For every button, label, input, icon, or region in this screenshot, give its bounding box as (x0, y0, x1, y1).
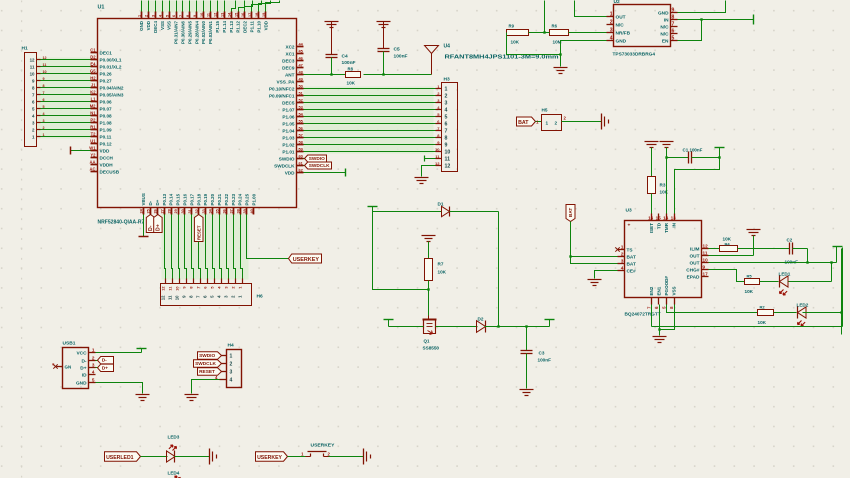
svg-text:RESET: RESET (199, 369, 215, 375)
wire ground to R7 (428, 242, 430, 259)
svg-text:10: 10 (200, 13, 204, 17)
net flag D+ at USB1 (96, 364, 114, 371)
svg-text:P0.03/AIN1: P0.03/AIN1 (208, 20, 213, 43)
svg-text:2: 2 (445, 94, 448, 100)
svg-text:53: 53 (299, 106, 303, 110)
wire LED2 to right rail (803, 312, 842, 314)
svg-text:4: 4 (43, 112, 45, 116)
svg-text:12: 12 (43, 56, 47, 60)
wire C1 to U3 IN (675, 156, 721, 213)
svg-text:P0.23: P0.23 (231, 193, 236, 205)
wire node to C3 (526, 327, 528, 351)
wire USERKEY to ground (329, 456, 364, 458)
ground below CE# (588, 279, 602, 281)
svg-text:H6: H6 (257, 294, 263, 300)
svg-text:9: 9 (672, 8, 675, 14)
svg-text:ILIM: ILIM (690, 246, 700, 252)
power flag at C1 (692, 148, 725, 158)
svg-text:5: 5 (43, 105, 45, 109)
svg-text:2: 2 (145, 15, 149, 17)
svg-text:36: 36 (223, 209, 227, 213)
diode D2 (477, 317, 486, 333)
svg-text:4: 4 (92, 370, 95, 375)
svg-text:EN1: EN1 (657, 286, 662, 295)
svg-text:19: 19 (262, 13, 266, 17)
svg-text:U4: U4 (444, 44, 451, 50)
svg-text:P0.00/XL1: P0.00/XL1 (100, 57, 122, 62)
svg-text:1: 1 (621, 245, 624, 251)
svg-text:SWDIO: SWDIO (309, 156, 325, 162)
svg-text:DECUSB: DECUSB (100, 169, 120, 174)
svg-text:BAT: BAT (568, 208, 573, 217)
svg-text:P1.06: P1.06 (282, 114, 295, 119)
svg-text:P1.12: P1.12 (236, 20, 241, 32)
svg-text:P1.14: P1.14 (222, 20, 227, 32)
transistor Q1 (423, 316, 440, 351)
svg-text:P1.00: P1.00 (252, 193, 257, 205)
svg-text:P1.03: P1.03 (282, 135, 295, 140)
svg-text:P1.05: P1.05 (282, 121, 295, 126)
svg-text:USERKEY: USERKEY (311, 443, 336, 449)
svg-text:47: 47 (299, 64, 303, 68)
wire R3 to U3 ISET (651, 194, 653, 214)
resistor R4 10K (720, 237, 738, 252)
wire H4 pin4 to ground (192, 380, 220, 394)
svg-text:NRF52840-QIAA-R7: NRF52840-QIAA-R7 (98, 220, 145, 226)
svg-text:100nF: 100nF (538, 358, 552, 363)
svg-text:RESET: RESET (196, 225, 201, 240)
svg-text:P0.29/AIN5: P0.29/AIN5 (187, 20, 192, 43)
power flag right of D2 (545, 320, 555, 327)
wire D2 to C3 and power (485, 325, 550, 327)
svg-text:M2: M2 (90, 104, 96, 109)
svg-text:DEC2: DEC2 (243, 20, 248, 32)
svg-text:P1.09: P1.09 (100, 127, 113, 132)
no-connect on U3 TS (615, 247, 619, 251)
svg-text:10: 10 (445, 150, 451, 156)
svg-text:15: 15 (656, 216, 662, 221)
svg-text:17: 17 (248, 13, 252, 17)
svg-text:VCC: VCC (76, 350, 87, 356)
svg-text:VDD: VDD (146, 20, 151, 30)
svg-text:100nF: 100nF (394, 54, 408, 60)
ground at H5 (601, 114, 603, 130)
ground right of LED3 (209, 449, 211, 465)
svg-text:C4: C4 (342, 54, 348, 60)
svg-text:RFANT8MH4JPS1101-3M=9.0mm: RFANT8MH4JPS1101-3M=9.0mm (445, 55, 560, 61)
svg-text:P1.07: P1.07 (282, 107, 295, 112)
mcu U1 nRF52840 (98, 5, 297, 226)
svg-text:R6: R6 (552, 24, 558, 29)
svg-text:VSS: VSS (160, 21, 165, 30)
svg-text:P0.06: P0.06 (100, 99, 113, 104)
svg-text:VDD: VDD (100, 148, 110, 153)
wire U1 to H3 bus (304, 89, 436, 152)
svg-text:6: 6 (672, 29, 675, 35)
svg-text:C5: C5 (394, 47, 400, 53)
net flag SWDCLK at H4 (194, 360, 222, 368)
svg-text:P0.26: P0.26 (100, 71, 113, 76)
capacitor C3 100nF (521, 351, 552, 363)
charger U3 left pins (618, 245, 637, 275)
power flag at Q1 source (384, 320, 424, 327)
svg-text:ANT: ANT (285, 72, 295, 77)
svg-text:D+: D+ (80, 365, 86, 371)
svg-text:R7: R7 (438, 262, 444, 267)
svg-text:VDDH: VDDH (100, 162, 114, 167)
wire D1 loop left (373, 212, 442, 290)
wire R7 to Q1 gate (427, 281, 429, 316)
svg-text:L1: L1 (91, 97, 97, 102)
svg-text:VDD: VDD (263, 20, 268, 30)
svg-text:LED2: LED2 (797, 303, 809, 308)
svg-text:62: 62 (299, 169, 303, 173)
svg-text:R3: R3 (660, 183, 666, 188)
wire ANT net (304, 73, 432, 75)
svg-text:D-: D- (102, 358, 107, 364)
svg-text:H5: H5 (542, 108, 548, 113)
svg-text:P1.10: P1.10 (256, 20, 261, 32)
svg-text:2: 2 (92, 356, 95, 361)
svg-text:BAT: BAT (627, 261, 637, 267)
svg-text:LED4: LED4 (168, 471, 180, 476)
wire H5 pin2 to ground (562, 121, 602, 123)
svg-text:H2: H2 (90, 76, 96, 81)
wire R6 to U2 NR/FB (569, 32, 607, 34)
svg-text:D+: D+ (155, 199, 160, 205)
svg-text:IN: IN (664, 17, 669, 23)
svg-text:D1: D1 (438, 202, 444, 207)
wire H3 pin11 stub (425, 156, 436, 162)
svg-text:DEC3: DEC3 (282, 58, 295, 63)
regulator U2 TPS73033 (613, 0, 671, 58)
svg-text:12: 12 (161, 287, 165, 291)
svg-text:10K: 10K (758, 320, 767, 325)
svg-text:H3: H3 (444, 77, 450, 83)
svg-text:DCCH: DCCH (100, 155, 114, 160)
svg-text:VSS_PA: VSS_PA (277, 79, 296, 84)
wire R5 to LED1 (760, 281, 779, 283)
wire U2 IN net (678, 15, 754, 25)
svg-text:N/C: N/C (616, 22, 625, 28)
svg-text:3: 3 (610, 28, 613, 34)
svg-text:5: 5 (672, 36, 675, 42)
svg-text:11: 11 (167, 295, 172, 300)
svg-text:P0.02/AIN0: P0.02/AIN0 (201, 20, 206, 43)
svg-text:29: 29 (174, 209, 178, 213)
svg-text:5: 5 (445, 115, 448, 121)
ground below USB1 (136, 394, 150, 396)
svg-text:VBUS: VBUS (141, 193, 146, 205)
svg-text:P0.30/AIN6: P0.30/AIN6 (181, 20, 186, 43)
svg-text:R5: R5 (747, 274, 753, 279)
svg-text:SWDCLK: SWDCLK (274, 163, 295, 168)
wire R4 to C2 (738, 248, 790, 250)
net flag BAT above U3 (566, 205, 575, 222)
svg-text:4: 4 (230, 378, 233, 384)
svg-text:U1: U1 (90, 139, 96, 144)
svg-text:+: + (628, 224, 631, 229)
svg-text:13: 13 (221, 13, 225, 17)
svg-text:12: 12 (445, 164, 451, 170)
svg-text:P0.08: P0.08 (100, 113, 113, 118)
svg-text:7: 7 (43, 91, 45, 95)
wire C2 to OUT net (793, 249, 808, 263)
svg-text:1: 1 (445, 87, 448, 93)
net flag D- at USB1 (96, 357, 114, 364)
svg-text:9: 9 (193, 15, 197, 17)
ground above R3 (645, 141, 659, 143)
net flag SWDIO (304, 155, 327, 162)
svg-text:7: 7 (445, 129, 448, 135)
svg-text:P0.24: P0.24 (238, 193, 243, 205)
svg-text:33: 33 (202, 209, 206, 213)
svg-text:3: 3 (152, 15, 156, 17)
net flag RESET on P0.18 (194, 215, 203, 242)
svg-text:P0.09/NFC1: P0.09/NFC1 (269, 93, 295, 98)
svg-text:R4: R4 (725, 242, 731, 247)
svg-text:6: 6 (203, 287, 207, 289)
ground below U3 (653, 336, 667, 338)
svg-text:AC: AC (90, 167, 96, 172)
wire U2 GND pin to ground (559, 41, 606, 67)
svg-text:2: 2 (230, 362, 233, 368)
wire U3 CHG# to R5 (709, 270, 745, 282)
svg-text:10K: 10K (511, 40, 520, 45)
svg-text:2: 2 (621, 252, 624, 258)
svg-text:SWDCLK: SWDCLK (309, 163, 330, 169)
battery connector H5 (536, 108, 566, 131)
net flag BAT at H5 (517, 117, 542, 126)
svg-text:VDD: VDD (285, 170, 295, 175)
ground below H4 (185, 394, 199, 396)
power flag at D1 anode (368, 207, 378, 212)
svg-text:C1: C1 (683, 148, 689, 153)
svg-text:H1: H1 (22, 46, 28, 52)
svg-text:D2: D2 (478, 317, 484, 322)
power flag OUT net (833, 246, 843, 248)
svg-text:P1.11: P1.11 (250, 20, 255, 32)
svg-text:P0.20: P0.20 (210, 193, 215, 205)
svg-text:1: 1 (230, 354, 233, 360)
svg-text:57: 57 (299, 134, 303, 138)
svg-text:USERKEY: USERKEY (257, 455, 282, 461)
svg-text:1: 1 (92, 348, 95, 353)
ground above R7 (422, 235, 436, 237)
wire R2 to LED2 (774, 312, 797, 314)
power flag VBUS at USB1 (96, 349, 147, 353)
ground above C5 (377, 22, 391, 49)
svg-text:P0.16: P0.16 (183, 193, 188, 205)
wire U3 OUT11 to ground (709, 236, 754, 256)
power flag VBUS (139, 215, 149, 237)
svg-text:OUT: OUT (616, 14, 626, 20)
svg-text:J1: J1 (91, 83, 96, 88)
svg-text:TMR: TMR (664, 222, 669, 233)
svg-text:12: 12 (160, 295, 165, 300)
net flag SWDCLK (304, 162, 332, 169)
wire U3 EN2 rail (652, 305, 843, 327)
svg-text:40: 40 (250, 209, 254, 213)
svg-text:1: 1 (43, 133, 45, 137)
svg-text:P1.08: P1.08 (100, 120, 113, 125)
svg-text:3: 3 (92, 363, 95, 368)
svg-text:CE#: CE# (627, 268, 637, 274)
svg-text:Q1: Q1 (424, 339, 430, 344)
led LED2 (797, 303, 809, 327)
capacitor C2 100nF (785, 238, 799, 265)
wire U3 VSS down (660, 305, 675, 330)
net flag USERKEY at SW (256, 452, 306, 461)
wire H3 pin12 to ground (422, 166, 436, 177)
svg-text:10: 10 (175, 287, 179, 291)
svg-text:R8: R8 (348, 67, 354, 72)
svg-text:D-: D- (148, 200, 153, 205)
svg-text:EN2: EN2 (649, 286, 654, 295)
net flag USERKEY at U1 (289, 254, 322, 263)
svg-text:17: 17 (703, 272, 709, 277)
wire C5 to ANT net (383, 52, 385, 75)
svg-text:10: 10 (174, 295, 179, 300)
wire U2 GND9 to top (678, 1, 726, 13)
regulator U2 left pins (607, 12, 631, 45)
ground right of USERKEY (363, 449, 365, 465)
svg-text:10: 10 (30, 71, 35, 76)
net flag RESET at H4 (198, 368, 222, 376)
svg-text:K2: K2 (90, 90, 96, 95)
power flag VDD at U1 right (304, 169, 346, 177)
svg-text:32: 32 (195, 209, 199, 213)
led LED4 (168, 471, 181, 478)
svg-text:8: 8 (43, 84, 45, 88)
svg-text:P0.22: P0.22 (224, 193, 229, 205)
svg-text:P0.01/XL2: P0.01/XL2 (100, 64, 122, 69)
svg-text:8: 8 (445, 136, 448, 142)
svg-text:1: 1 (610, 12, 613, 18)
svg-text:USB1: USB1 (63, 341, 76, 347)
svg-text:H4: H4 (228, 343, 234, 349)
wire right rail (840, 249, 842, 335)
svg-text:VSS: VSS (672, 286, 677, 295)
wire H1 to U1 bus (41, 56, 91, 137)
capacitor C1 100nF (667, 148, 703, 164)
connector H6 (160, 279, 263, 306)
svg-text:TD: TD (657, 222, 662, 229)
svg-text:11: 11 (445, 157, 451, 163)
svg-text:10: 10 (703, 258, 709, 263)
ground below R6 (554, 67, 568, 69)
svg-text:C2: C2 (787, 238, 793, 243)
svg-text:16: 16 (648, 216, 654, 221)
svg-text:W1: W1 (89, 146, 96, 151)
svg-text:10K: 10K (347, 81, 356, 86)
svg-text:USERKEY: USERKEY (293, 257, 320, 263)
resistor R5 10K (745, 274, 760, 295)
svg-text:4: 4 (621, 266, 624, 272)
svg-text:N1: N1 (90, 111, 96, 116)
svg-text:P2: P2 (90, 118, 96, 123)
svg-text:P0.12: P0.12 (100, 141, 113, 146)
svg-text:12: 12 (435, 161, 440, 166)
wire C4 to ANT net (331, 58, 333, 75)
net flag D- below U1 (146, 215, 154, 233)
svg-text:9: 9 (703, 265, 706, 270)
svg-text:3: 3 (224, 287, 228, 289)
svg-text:P0.31/AIN7: P0.31/AIN7 (174, 20, 179, 43)
mcu U1 bottom pins (140, 193, 257, 214)
svg-text:P0.10/NFC2: P0.10/NFC2 (269, 86, 295, 91)
svg-text:6: 6 (172, 15, 176, 17)
wire U2 EN to IN (678, 18, 703, 40)
svg-text:OUT: OUT (689, 253, 699, 259)
svg-text:P0.07: P0.07 (100, 106, 113, 111)
svg-text:PGOOD#: PGOOD# (664, 276, 669, 296)
svg-text:GND: GND (139, 20, 144, 31)
svg-text:T2: T2 (91, 132, 97, 137)
svg-text:2: 2 (555, 121, 558, 126)
svg-text:9: 9 (43, 77, 45, 81)
ground above U3 OUT (747, 229, 761, 231)
connector H3 (435, 77, 458, 172)
svg-text:SWDIO: SWDIO (279, 156, 295, 161)
wire U2 OUT to top (575, 1, 607, 17)
svg-text:LED3: LED3 (168, 435, 180, 440)
mcu U1 right pins (269, 43, 304, 176)
svg-text:DEC9: DEC9 (282, 65, 295, 70)
wire ground to R3 (651, 148, 653, 177)
wire LED3 to ground (175, 456, 210, 458)
wire P0.25 to USERKEY flag (247, 215, 289, 259)
svg-text:GN: GN (65, 365, 72, 370)
svg-text:P1.15: P1.15 (215, 20, 220, 32)
wire C3 to ground (526, 354, 528, 389)
svg-text:P0.25: P0.25 (245, 193, 250, 205)
svg-text:LED1: LED1 (779, 272, 791, 277)
svg-text:DEC1: DEC1 (100, 50, 113, 55)
wire D1 to D2 node (450, 212, 499, 327)
usb connector USB1 (63, 341, 89, 389)
svg-text:BAT: BAT (518, 120, 529, 126)
svg-text:11: 11 (435, 154, 440, 159)
svg-text:3: 3 (43, 119, 45, 123)
svg-text:4: 4 (610, 36, 613, 42)
svg-text:XC1: XC1 (285, 51, 294, 56)
resistor R7 10K (425, 259, 447, 281)
led LED3 (167, 435, 180, 463)
diode D1 (438, 202, 450, 217)
capacitor C4 100nF (326, 54, 356, 67)
svg-text:7: 7 (196, 287, 200, 289)
wire Q1 to D2 (436, 326, 478, 328)
svg-text:C3: C3 (539, 351, 545, 356)
svg-text:XC2: XC2 (285, 44, 294, 49)
regulator U2 right pins (658, 8, 678, 45)
resistor R2 10K (758, 305, 774, 326)
svg-text:3: 3 (621, 259, 624, 265)
wire U3 OUT10 net (709, 247, 837, 264)
svg-text:SS8550: SS8550 (423, 346, 440, 351)
usb USB1 shield pin (52, 362, 71, 370)
svg-text:56: 56 (299, 127, 303, 131)
svg-text:P1.13: P1.13 (229, 20, 234, 32)
svg-text:12: 12 (703, 244, 709, 249)
net flag D+ below U1 (154, 215, 162, 233)
svg-text:12: 12 (30, 57, 35, 62)
svg-text:46: 46 (299, 57, 303, 61)
svg-text:7: 7 (179, 15, 183, 17)
svg-text:1: 1 (546, 121, 549, 126)
svg-text:11: 11 (703, 251, 708, 256)
